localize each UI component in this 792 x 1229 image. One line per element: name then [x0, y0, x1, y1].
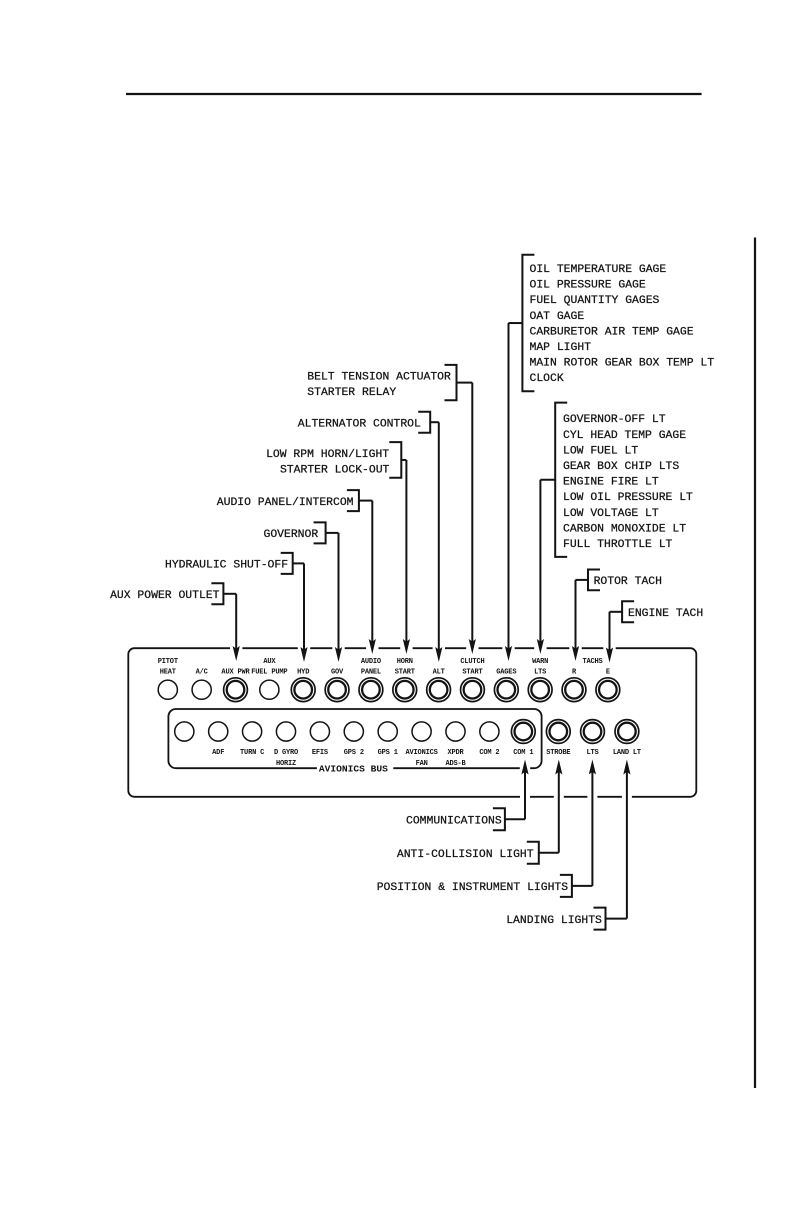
svg-text:STROBE: STROBE [546, 749, 570, 757]
svg-text:AUX POWER OUTLET: AUX POWER OUTLET [110, 590, 220, 602]
svg-text:MAP LIGHT: MAP LIGHT [530, 342, 592, 354]
svg-text:ROTOR TACH: ROTOR TACH [594, 576, 662, 588]
svg-text:ADF: ADF [212, 749, 224, 757]
svg-text:OAT GAGE: OAT GAGE [530, 311, 585, 323]
svg-text:AUDIO PANEL/INTERCOM: AUDIO PANEL/INTERCOM [217, 497, 354, 509]
svg-text:CARBON MONOXIDE LT: CARBON MONOXIDE LT [563, 523, 686, 535]
svg-text:ANTI-COLLISION LIGHT: ANTI-COLLISION LIGHT [397, 849, 534, 861]
svg-text:LAND LT: LAND LT [613, 749, 641, 757]
svg-text:HORIZ: HORIZ [276, 760, 296, 768]
svg-text:PITOT: PITOT [158, 658, 178, 666]
svg-text:GPS 2: GPS 2 [344, 749, 364, 757]
svg-text:TACHS: TACHS [582, 658, 602, 666]
svg-text:GOVERNOR: GOVERNOR [264, 529, 319, 541]
svg-text:START: START [462, 669, 482, 677]
svg-text:FULL THROTTLE LT: FULL THROTTLE LT [563, 539, 673, 551]
svg-text:GOV: GOV [331, 669, 344, 677]
svg-text:HORN: HORN [397, 658, 413, 666]
svg-text:CYL HEAD TEMP GAGE: CYL HEAD TEMP GAGE [563, 430, 686, 442]
svg-text:AUDIO: AUDIO [361, 658, 381, 666]
svg-text:STARTER LOCK-OUT: STARTER LOCK-OUT [280, 464, 390, 476]
svg-text:LTS: LTS [534, 669, 546, 677]
svg-text:HYD: HYD [297, 669, 309, 677]
svg-text:LOW RPM HORN/LIGHT: LOW RPM HORN/LIGHT [266, 449, 389, 461]
svg-text:COM 2: COM 2 [479, 749, 499, 757]
svg-text:HEAT: HEAT [160, 669, 176, 677]
svg-text:FUEL QUANTITY GAGES: FUEL QUANTITY GAGES [530, 295, 660, 307]
svg-text:XPDR: XPDR [447, 749, 464, 757]
svg-text:LOW FUEL LT: LOW FUEL LT [563, 445, 638, 457]
svg-text:ENGINE FIRE LT: ENGINE FIRE LT [563, 477, 659, 489]
svg-text:LOW VOLTAGE LT: LOW VOLTAGE LT [563, 508, 659, 520]
svg-text:AVIONICS BUS: AVIONICS BUS [319, 763, 388, 774]
svg-text:TURN C: TURN C [240, 749, 264, 757]
svg-text:ENGINE TACH: ENGINE TACH [628, 608, 703, 620]
svg-text:OIL TEMPERATURE GAGE: OIL TEMPERATURE GAGE [530, 264, 667, 276]
svg-text:ALTERNATOR CONTROL: ALTERNATOR CONTROL [298, 418, 421, 430]
svg-text:PANEL: PANEL [361, 669, 381, 677]
svg-text:GEAR BOX CHIP LTS: GEAR BOX CHIP LTS [563, 461, 679, 473]
svg-text:CARBURETOR AIR TEMP GAGE: CARBURETOR AIR TEMP GAGE [530, 326, 694, 338]
svg-text:GAGES: GAGES [496, 669, 516, 677]
svg-text:START: START [395, 669, 415, 677]
svg-text:COM 1: COM 1 [513, 749, 533, 757]
svg-text:STARTER RELAY: STARTER RELAY [307, 387, 396, 399]
svg-text:EFIS: EFIS [312, 749, 328, 757]
svg-text:ALT: ALT [433, 669, 445, 677]
svg-text:E: E [606, 669, 610, 677]
svg-text:AUX PWR: AUX PWR [221, 669, 250, 677]
svg-text:AUX: AUX [263, 658, 276, 666]
svg-text:GOVERNOR-OFF LT: GOVERNOR-OFF LT [563, 414, 666, 426]
svg-text:CLUTCH: CLUTCH [460, 658, 484, 666]
svg-text:FAN: FAN [416, 760, 428, 768]
svg-text:HYDRAULIC SHUT-OFF: HYDRAULIC SHUT-OFF [165, 560, 288, 572]
svg-text:BELT TENSION ACTUATOR: BELT TENSION ACTUATOR [307, 372, 451, 384]
svg-text:D GYRO: D GYRO [274, 749, 298, 757]
svg-text:MAIN ROTOR GEAR BOX TEMP LT: MAIN ROTOR GEAR BOX TEMP LT [530, 357, 715, 369]
svg-text:AVIONICS: AVIONICS [406, 749, 438, 757]
svg-text:FUEL PUMP: FUEL PUMP [251, 669, 287, 677]
svg-text:LTS: LTS [586, 749, 598, 757]
svg-text:LANDING LIGHTS: LANDING LIGHTS [506, 915, 602, 927]
svg-text:GPS 1: GPS 1 [378, 749, 398, 757]
svg-text:LOW OIL PRESSURE LT: LOW OIL PRESSURE LT [563, 492, 693, 504]
svg-text:A/C: A/C [196, 669, 208, 677]
svg-text:ADS-B: ADS-B [445, 760, 466, 768]
svg-text:CLOCK: CLOCK [530, 373, 564, 385]
svg-text:OIL PRESSURE GAGE: OIL PRESSURE GAGE [530, 280, 646, 292]
svg-text:POSITION & INSTRUMENT LIGHTS: POSITION & INSTRUMENT LIGHTS [377, 882, 569, 894]
svg-text:COMMUNICATIONS: COMMUNICATIONS [406, 815, 502, 827]
svg-text:WARN: WARN [532, 658, 548, 666]
